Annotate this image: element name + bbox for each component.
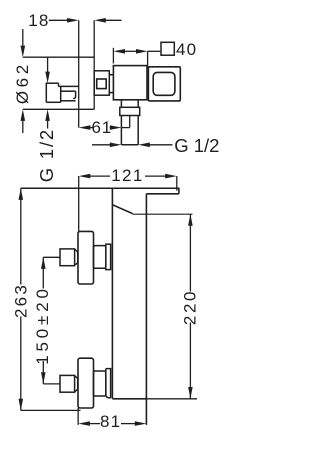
body right edge (front) extended to 81 dim bbox=[145, 194, 147, 425]
handle block bevel diagonal bbox=[112, 205, 132, 214]
dimension 40 extension left bbox=[112, 48, 114, 64]
dimension 121: arrows, line, text bbox=[79, 174, 91, 179]
dimension 18 line left bbox=[49, 19, 70, 21]
tube bottom edge bbox=[121, 144, 138, 146]
bottom inlet escutcheon bbox=[78, 358, 94, 408]
spout neck below body (side) bbox=[120, 100, 140, 145]
top inlet connector bbox=[94, 244, 111, 269]
wall plate (side) right face + extension bbox=[93, 20, 95, 109]
bottom inlet fitting: pipe tick bbox=[43, 383, 60, 385]
handle cap inner square (side) bbox=[153, 72, 175, 95]
wall plate top edge + dim tick bbox=[23, 56, 94, 58]
handle block bottom + 220 top tick bbox=[133, 213, 193, 215]
top inlet fitting: pipe tick bbox=[43, 256, 60, 258]
wall plate bottom edge + dim tick bbox=[23, 108, 94, 110]
dimension 40 arrows and line bbox=[113, 49, 125, 54]
dimension O62 bottom arrow bbox=[21, 109, 26, 121]
top inlet escutcheon bbox=[78, 231, 94, 284]
right arrow and line bbox=[138, 143, 150, 148]
mixer body (side) bbox=[113, 66, 147, 100]
dimension 18 arrow left-pointing bbox=[94, 18, 106, 23]
svg-text:81: 81 bbox=[100, 412, 121, 431]
outlet tube centerline mark bbox=[129, 116, 131, 128]
dimension 121 right extension bbox=[176, 176, 178, 191]
bottom inlet nut bbox=[60, 375, 78, 392]
outlet box bbox=[120, 107, 140, 115]
svg-text:61: 61 bbox=[92, 118, 113, 137]
body left edge (front) bbox=[111, 188, 113, 398]
wall supply nipple (side) bbox=[46, 83, 79, 102]
dimension 81 arrows, line, text bbox=[78, 421, 90, 426]
dimension O62 top arrow bbox=[22, 29, 24, 48]
svg-text:220: 220 bbox=[181, 289, 200, 325]
square symbol of square-40 label bbox=[161, 42, 174, 55]
G 1/2 lower leader arrow (side) bbox=[45, 109, 50, 121]
G 1/2 upper leader arrow (side) bbox=[47, 57, 49, 74]
dimension 81 left extension bbox=[77, 408, 79, 425]
bottom inlet connector bbox=[94, 369, 111, 398]
handle cap (side) bbox=[148, 67, 180, 101]
top bar top edge + 263 top tick bbox=[21, 187, 180, 189]
outlet tube bbox=[120, 116, 122, 145]
dimension 61 line and arrows bbox=[79, 125, 91, 130]
wall plate (side) left face + extensions bbox=[78, 20, 80, 127]
dimension 220 bottom tick bbox=[146, 398, 197, 400]
svg-text:263: 263 bbox=[12, 283, 31, 318]
dimension 18 arrow right-pointing bbox=[67, 18, 79, 23]
dimension 18 line right bbox=[105, 19, 122, 21]
dimension 263 vertical line + arrows bbox=[19, 188, 24, 200]
svg-text:G 1/2: G 1/2 bbox=[36, 128, 57, 182]
svg-text:121: 121 bbox=[111, 166, 144, 185]
svg-text:40: 40 bbox=[176, 40, 197, 59]
wall column line above top escutcheon bbox=[78, 176, 80, 232]
dimension 40 leader to label bbox=[147, 51, 149, 67]
dimension G 1/2 bottom (side): left line and arrow bbox=[92, 144, 113, 146]
top bar right edge bbox=[178, 188, 180, 194]
svg-text:150±20: 150±20 bbox=[33, 285, 52, 364]
svg-text:18: 18 bbox=[28, 11, 49, 30]
top bar bottom edge (right part) bbox=[146, 193, 179, 195]
dimension 220 vertical line + arrows bbox=[188, 214, 193, 226]
body bottom edge (front) bbox=[112, 398, 146, 400]
svg-text:Ø62: Ø62 bbox=[13, 61, 32, 104]
top inlet nut bbox=[60, 249, 78, 266]
dimension 150+-20 vertical line + arrows bbox=[41, 257, 46, 269]
connector between plate and body (side) bbox=[94, 71, 113, 95]
svg-text:G 1/2: G 1/2 bbox=[174, 135, 219, 156]
dimension 263 bottom tick bbox=[21, 409, 81, 411]
